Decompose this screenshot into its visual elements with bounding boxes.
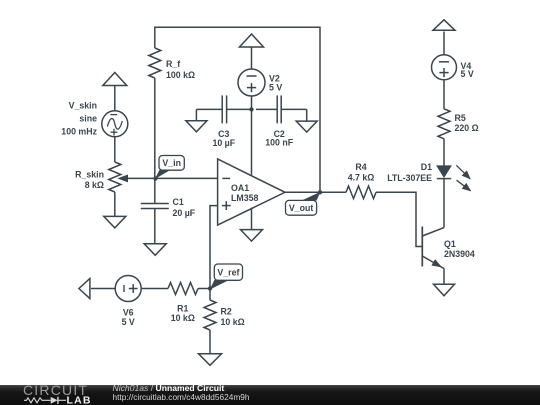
- svg-text:LTL-307EE: LTL-307EE: [387, 173, 432, 183]
- svg-text:100 mHz: 100 mHz: [61, 127, 97, 137]
- svg-text:2N3904: 2N3904: [444, 249, 475, 259]
- svg-text:10 kΩ: 10 kΩ: [171, 313, 195, 323]
- svg-text:R2: R2: [221, 307, 232, 317]
- svg-text:D1: D1: [421, 162, 432, 172]
- svg-text:V_ref: V_ref: [217, 267, 239, 277]
- svg-text:10 kΩ: 10 kΩ: [221, 317, 245, 327]
- svg-text:V6: V6: [123, 307, 134, 317]
- svg-text:V_skin: V_skin: [69, 101, 97, 111]
- svg-text:C1: C1: [173, 197, 184, 207]
- svg-text:V_out: V_out: [289, 203, 314, 213]
- svg-text:100 nF: 100 nF: [265, 138, 293, 148]
- svg-text:http://circuitlab.com/c4w8dd56: http://circuitlab.com/c4w8dd5624m9h: [113, 392, 250, 402]
- svg-text:20 µF: 20 µF: [173, 208, 196, 218]
- svg-text:R5: R5: [455, 113, 466, 123]
- svg-text:100 kΩ: 100 kΩ: [166, 70, 195, 80]
- svg-text:R1: R1: [177, 304, 188, 314]
- svg-text:LM358: LM358: [231, 193, 258, 203]
- svg-text:8 kΩ: 8 kΩ: [85, 180, 104, 190]
- svg-text:LAB: LAB: [67, 395, 92, 405]
- svg-text:4.7 kΩ: 4.7 kΩ: [348, 172, 375, 182]
- svg-text:R4: R4: [355, 162, 366, 172]
- svg-text:sine: sine: [79, 114, 97, 124]
- svg-text:5 V: 5 V: [269, 83, 282, 93]
- svg-text:Q1: Q1: [444, 239, 456, 249]
- svg-text:5 V: 5 V: [461, 69, 474, 79]
- svg-text:V_in: V_in: [162, 158, 181, 168]
- svg-text:OA1: OA1: [231, 183, 249, 193]
- svg-text:R_skin: R_skin: [75, 170, 104, 180]
- svg-text:220 Ω: 220 Ω: [455, 123, 479, 133]
- svg-text:R_f: R_f: [166, 59, 180, 69]
- svg-text:5 V: 5 V: [122, 317, 135, 327]
- svg-text:10 µF: 10 µF: [212, 138, 235, 148]
